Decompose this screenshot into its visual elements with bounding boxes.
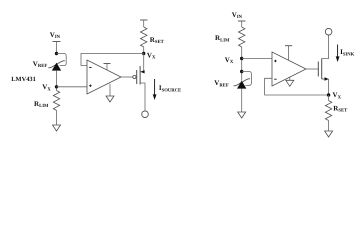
op-amp U2 inverting input mark (minus, bottom) xyxy=(274,78,276,80)
junction node V_X (NMOS source) xyxy=(327,93,330,96)
LMV431 shunt regulator diode (right, filled triangle) xyxy=(237,81,246,89)
LMV431 reference diagonal stroke (right) xyxy=(233,79,250,86)
label LMV431 xyxy=(11,76,36,83)
wire Q1 source lead from V_X node xyxy=(143,54,145,72)
wire terminal to R_SET xyxy=(143,20,145,27)
transistor Q1 gate bar xyxy=(136,70,138,84)
label I_SINK xyxy=(340,48,355,57)
resistor R_LIM (left) xyxy=(53,91,59,111)
LMV431 reference diagonal stroke xyxy=(48,61,65,68)
transistor Q1 source arrow (points into channel) xyxy=(140,70,144,73)
label R_SET (right) xyxy=(333,104,348,113)
wire V_X to op-amp noninverting input xyxy=(242,58,272,60)
transistor Q1 channel bar xyxy=(139,66,141,85)
wire V_X down to R_SET xyxy=(328,95,330,101)
junction node LMV431 cathode (right) xyxy=(240,70,243,73)
wire LMV431 anode to ground (right) xyxy=(241,89,243,112)
ground (right op-amp) xyxy=(286,80,294,86)
wire Q1 drain lead to output terminal xyxy=(140,83,145,111)
ground (right R_SET) xyxy=(325,131,333,137)
label V_REF (left) xyxy=(33,60,48,69)
transistor Q2 source arrow (points out of channel) xyxy=(322,77,329,80)
op-amp U1 inverting input mark (minus, top) xyxy=(89,66,91,68)
wire Q2 source down to node V_X xyxy=(328,79,330,95)
op-amp U1 noninverting input mark (plus, bottom) xyxy=(89,85,91,87)
wire feedback from NMOS source to op-amp inverting input xyxy=(265,78,329,95)
wire Q2 drain lead to output terminal xyxy=(322,35,329,58)
label V_REF (right) xyxy=(214,79,229,88)
node V_X label (right circuit, reference node) xyxy=(225,56,234,65)
junction node V_X (anode) xyxy=(55,85,58,88)
wire R_LIM to ground xyxy=(56,110,58,125)
power terminal bar above R_SET (left) xyxy=(140,19,148,21)
node V_IN label (left) xyxy=(50,31,61,40)
wire V_IN to R_LIM xyxy=(241,21,243,27)
resistor R_LIM (right) xyxy=(239,27,245,47)
label I_SOURCE xyxy=(159,84,181,93)
wire V_X to op-amp noninverting input xyxy=(57,86,88,88)
wire V_IN down to node A xyxy=(56,42,58,54)
wire feedback V_X to op-amp inverting input xyxy=(81,54,144,66)
label R_SET (left) xyxy=(150,36,165,45)
node V_IN label (right) xyxy=(232,11,243,20)
junction node V_X (reference) xyxy=(240,57,243,60)
node V_X label (left circuit, anode node) xyxy=(42,83,51,92)
wire op-amp output to NMOS gate xyxy=(306,68,318,70)
wire R_LIM down to node V_X xyxy=(241,47,243,81)
node V_X label (R_SET bottom) xyxy=(147,51,156,60)
junction node A (LMV431 cathode) xyxy=(55,52,58,55)
output terminal circle (right) xyxy=(325,28,332,35)
power terminal V_IN bar (left) xyxy=(53,41,61,43)
transistor Q2 channel bar xyxy=(321,59,323,80)
op-amp U2 (right) xyxy=(272,52,306,86)
ground (left op-amp) xyxy=(106,96,114,102)
annotation arrow I_SOURCE xyxy=(153,79,157,100)
transistor Q2 NMOS gate bar xyxy=(317,62,319,77)
op-amp U2 noninverting input mark (plus, top) xyxy=(274,60,276,62)
resistor R_SET (right) xyxy=(325,101,331,121)
wire LMV431 cathode-to-reference loop (right) xyxy=(242,72,252,86)
wire LMV431 cathode-to-reference loop xyxy=(57,54,67,66)
label R_LIM (right) xyxy=(215,34,230,43)
junction node V_X (R_SET bottom) xyxy=(142,52,145,55)
wire LMV431 anode down to node V_X xyxy=(56,71,58,91)
resistor R_SET (left) xyxy=(141,27,147,47)
transistor Q1 PMOS gate bubble xyxy=(133,75,136,78)
label R_LIM (left) xyxy=(34,100,49,109)
power terminal V_IN bar (right) xyxy=(238,20,246,22)
wire R_SET to ground xyxy=(328,121,330,132)
op-amp U1 (left) xyxy=(87,60,121,94)
LMV431 shunt regulator diode (filled triangle, cathode up) xyxy=(52,63,61,71)
ground (right LMV431) xyxy=(238,112,246,118)
op-amp U2 positive supply stub xyxy=(285,46,292,61)
op-amp U2 negative supply stub xyxy=(289,77,291,80)
wire R_SET to node V_X right xyxy=(143,47,145,54)
output terminal circle (left) xyxy=(142,111,149,118)
annotation arrow I_SINK xyxy=(336,45,340,63)
ground (left R_LIM) xyxy=(53,125,61,131)
op-amp U1 negative supply stub xyxy=(109,84,111,96)
node V_X label (NMOS source) xyxy=(333,91,342,100)
svg-text:LMV431: LMV431 xyxy=(11,76,36,83)
wire op-amp output to gate bubble xyxy=(121,76,133,78)
op-amp U1 positive supply stub xyxy=(104,64,111,71)
